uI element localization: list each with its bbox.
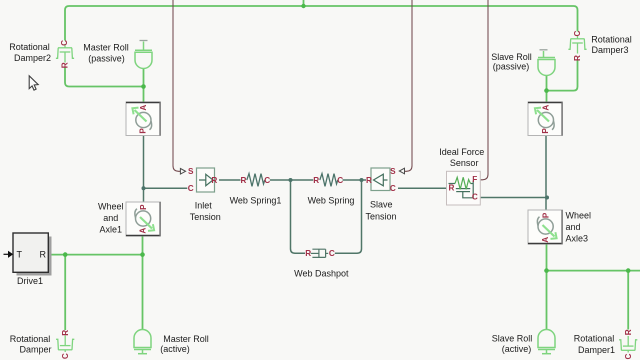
svg-text:Drive1: Drive1: [17, 276, 43, 286]
svg-text:Damper1: Damper1: [578, 345, 615, 355]
svg-text:Wheel: Wheel: [566, 210, 592, 220]
svg-text:Rotational: Rotational: [574, 334, 615, 344]
svg-text:P: P: [138, 128, 147, 134]
svg-text:R: R: [573, 55, 582, 61]
svg-text:A: A: [542, 105, 551, 111]
svg-text:(active): (active): [502, 344, 532, 354]
svg-text:Slave Roll: Slave Roll: [492, 334, 533, 344]
svg-text:C: C: [60, 40, 69, 46]
svg-text:Slave: Slave: [370, 200, 393, 210]
svg-text:C: C: [472, 192, 478, 201]
svg-text:C: C: [329, 249, 335, 258]
svg-text:C: C: [188, 184, 194, 193]
svg-text:P: P: [139, 204, 148, 210]
svg-text:C: C: [390, 184, 396, 193]
svg-text:R: R: [211, 176, 217, 185]
svg-text:Ideal Force: Ideal Force: [439, 147, 484, 157]
svg-text:and: and: [103, 213, 118, 223]
svg-text:Master Roll: Master Roll: [83, 42, 129, 52]
svg-text:S: S: [390, 167, 396, 176]
svg-text:A: A: [541, 237, 550, 243]
svg-text:(active): (active): [160, 344, 190, 354]
svg-text:Damper2: Damper2: [14, 53, 51, 63]
svg-text:Inlet: Inlet: [195, 201, 213, 211]
svg-text:R: R: [241, 176, 247, 185]
svg-text:Rotational: Rotational: [591, 35, 632, 45]
svg-text:S: S: [188, 167, 194, 176]
svg-text:Rotational: Rotational: [10, 334, 51, 344]
svg-text:A: A: [139, 228, 148, 234]
svg-text:P: P: [541, 128, 550, 134]
svg-text:T: T: [17, 250, 23, 260]
svg-text:(passive): (passive): [88, 53, 125, 63]
svg-text:Damper3: Damper3: [591, 45, 628, 55]
svg-text:R: R: [449, 184, 455, 193]
svg-text:R: R: [366, 176, 372, 185]
svg-text:Web Spring: Web Spring: [308, 196, 355, 206]
svg-text:Wheel: Wheel: [98, 201, 124, 211]
svg-text:Rotational: Rotational: [9, 42, 50, 52]
svg-text:Tension: Tension: [365, 212, 396, 222]
svg-text:Axle3: Axle3: [566, 233, 589, 243]
svg-text:Master Roll: Master Roll: [163, 334, 209, 344]
svg-text:Sensor: Sensor: [450, 158, 479, 168]
svg-text:Web Spring1: Web Spring1: [230, 196, 282, 206]
svg-text:Axle1: Axle1: [100, 224, 123, 234]
svg-text:Web Dashpot: Web Dashpot: [294, 269, 349, 279]
svg-text:C: C: [61, 353, 70, 359]
svg-text:and: and: [566, 222, 581, 232]
svg-text:P: P: [541, 212, 550, 218]
svg-text:R: R: [313, 176, 319, 185]
svg-text:F: F: [472, 175, 477, 184]
svg-text:C: C: [264, 176, 270, 185]
svg-text:C: C: [624, 354, 633, 360]
svg-text:R: R: [305, 249, 311, 258]
svg-text:C: C: [337, 176, 343, 185]
svg-text:(passive): (passive): [493, 61, 530, 71]
svg-text:A: A: [139, 105, 148, 111]
svg-text:R: R: [61, 62, 70, 68]
svg-text:R: R: [40, 250, 47, 260]
svg-text:R: R: [624, 329, 633, 335]
svg-text:C: C: [573, 30, 582, 36]
svg-text:Damper: Damper: [19, 345, 51, 355]
svg-text:R: R: [61, 330, 70, 336]
svg-text:Tension: Tension: [190, 212, 221, 222]
